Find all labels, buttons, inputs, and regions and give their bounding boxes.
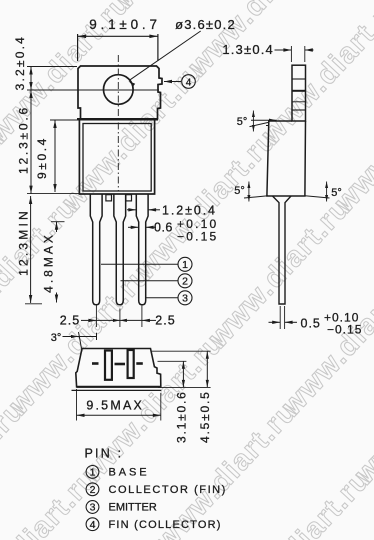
dim 2.5 pin pitch <box>95 306 97 328</box>
bottom view slot 2 <box>128 350 134 378</box>
svg-text:9.1±0.7: 9.1±0.7 <box>89 17 161 32</box>
vertical centerline <box>117 55 119 191</box>
callout 1 <box>101 263 178 265</box>
bottom view bottom thick edge <box>77 386 161 388</box>
dim 0.6 +0.10/-0.15 <box>128 226 139 228</box>
side view tab strip <box>292 65 306 121</box>
dim 1.2±0.4 <box>127 209 136 211</box>
svg-text:COLLECTOR (FIN): COLLECTOR (FIN) <box>109 484 227 496</box>
svg-text:3°: 3° <box>51 332 62 344</box>
tab strip rung 1 <box>292 78 306 80</box>
svg-text:1: 1 <box>182 259 188 271</box>
svg-text:−0.15: −0.15 <box>177 230 218 244</box>
front body inner <box>83 124 151 192</box>
pin 3 (emitter) lead <box>136 194 148 305</box>
svg-text:5°: 5° <box>237 116 248 128</box>
gate mark left <box>106 195 112 201</box>
bottom view dash right <box>136 362 143 365</box>
pin list item 3 EMITTER <box>86 501 99 514</box>
pin 1 (base) lead <box>90 194 102 305</box>
svg-text:1.3±0.4: 1.3±0.4 <box>222 42 274 57</box>
callout 4 (fin) <box>164 81 181 83</box>
svg-text:2: 2 <box>90 484 96 496</box>
gate mark right <box>126 195 132 201</box>
bottom view lower thin line <box>72 389 162 391</box>
svg-text:ø3.6±0.2: ø3.6±0.2 <box>175 17 236 32</box>
bottom view outline <box>76 349 161 387</box>
svg-text:2: 2 <box>182 276 188 288</box>
svg-text:BASE: BASE <box>109 467 150 479</box>
svg-text:2.5: 2.5 <box>155 313 175 327</box>
svg-text:9.5MAX: 9.5MAX <box>86 399 144 413</box>
svg-text:0.5: 0.5 <box>301 316 321 330</box>
svg-text:3: 3 <box>182 293 188 305</box>
front view tab outline <box>78 66 162 119</box>
svg-text:0.6: 0.6 <box>154 220 173 234</box>
pin list item 2 COLLECTOR (FIN) <box>86 483 99 496</box>
tab strip rung 4 <box>292 109 306 111</box>
svg-text:FIN (COLLECTOR): FIN (COLLECTOR) <box>109 519 222 531</box>
side body small step <box>268 121 270 126</box>
svg-text:3.2±0.4: 3.2±0.4 <box>13 35 27 90</box>
dim 1.3±0.4 <box>290 46 292 62</box>
dim 9.5MAX <box>76 389 78 421</box>
callout 3 <box>146 297 178 299</box>
bottom view dash left <box>92 362 99 365</box>
svg-text:4.5±0.5: 4.5±0.5 <box>198 390 212 443</box>
side lead taper <box>273 196 292 304</box>
dim 3.2±0.4 <box>30 67 32 91</box>
svg-text:EMITTER: EMITTER <box>109 502 157 514</box>
bottom view dash middle <box>115 363 126 366</box>
callout 2 <box>121 280 178 282</box>
svg-text:3.1±0.6: 3.1±0.6 <box>175 390 189 443</box>
svg-text:4.8MAX: 4.8MAX <box>42 232 56 293</box>
svg-text:−0.15: −0.15 <box>327 323 362 337</box>
pin list item 4 FIN (COLLECTOR) <box>86 518 99 531</box>
dim 3.1±0.6 <box>158 360 187 362</box>
pin 2 (collector) lead <box>114 194 126 305</box>
hole horizontal centerline <box>27 89 159 91</box>
tab strip rung 2 <box>292 90 306 92</box>
side view body <box>267 121 306 196</box>
dim 4.8MAX <box>51 221 65 223</box>
dim 9±0.4 <box>50 119 78 121</box>
dim 12.3±0.6 <box>30 90 32 194</box>
svg-text:12.3±0.6: 12.3±0.6 <box>17 105 31 174</box>
svg-text:9±0.4: 9±0.4 <box>35 136 49 179</box>
svg-text:4: 4 <box>90 519 96 531</box>
ext line body bottom left <box>27 193 79 195</box>
dim 0.5 +0.10/-0.15 <box>279 306 281 329</box>
svg-text:3: 3 <box>90 502 96 514</box>
svg-text:www.diart.ru: www.diart.ru <box>255 0 374 151</box>
svg-text:PIN :: PIN : <box>85 447 124 461</box>
dim 4.5±0.5 <box>152 350 211 352</box>
dim 9.1±0.7 <box>77 34 79 61</box>
tab strip rung 3 <box>292 101 306 103</box>
pin list item 1 BASE <box>86 466 99 479</box>
bottom view slot 1 <box>105 351 112 380</box>
front tab bottom edge <box>77 118 158 121</box>
svg-text:12.3MIN: 12.3MIN <box>17 208 31 276</box>
svg-text:4: 4 <box>186 77 192 88</box>
svg-text:1.2±0.4: 1.2±0.4 <box>162 204 217 218</box>
dim 12.3MIN <box>30 196 32 303</box>
front body outer <box>79 119 154 194</box>
svg-text:5°: 5° <box>234 185 245 197</box>
svg-text:5°: 5° <box>331 187 342 199</box>
mounting hole <box>104 75 134 105</box>
svg-text:1: 1 <box>90 467 96 479</box>
ext line tab top left <box>27 66 77 68</box>
svg-text:2.5: 2.5 <box>60 313 80 327</box>
